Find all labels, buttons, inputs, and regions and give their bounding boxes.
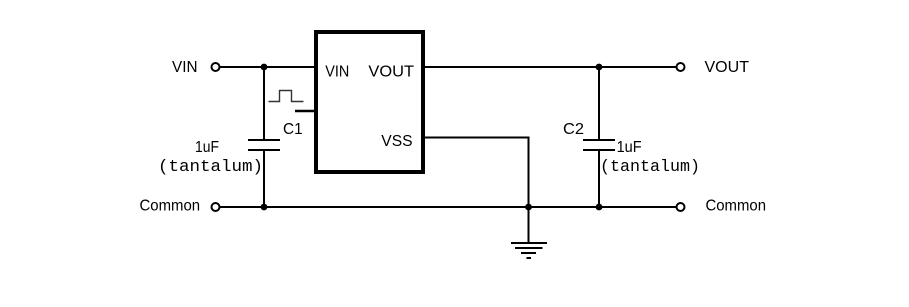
svg-text:1uF: 1uF <box>617 139 642 156</box>
svg-text:VOUT: VOUT <box>368 64 414 81</box>
svg-text:1uF: 1uF <box>195 139 219 156</box>
svg-text:C1: C1 <box>283 121 303 138</box>
svg-text:VIN: VIN <box>325 64 349 81</box>
svg-text:(tantalum): (tantalum) <box>158 158 263 177</box>
svg-text:(tantalum): (tantalum) <box>600 158 700 177</box>
svg-text:VOUT: VOUT <box>705 59 750 76</box>
svg-text:Common: Common <box>706 198 767 215</box>
svg-text:Common: Common <box>140 198 201 215</box>
svg-text:C2: C2 <box>563 121 584 138</box>
svg-text:VIN: VIN <box>172 59 198 76</box>
svg-text:VSS: VSS <box>381 133 412 150</box>
